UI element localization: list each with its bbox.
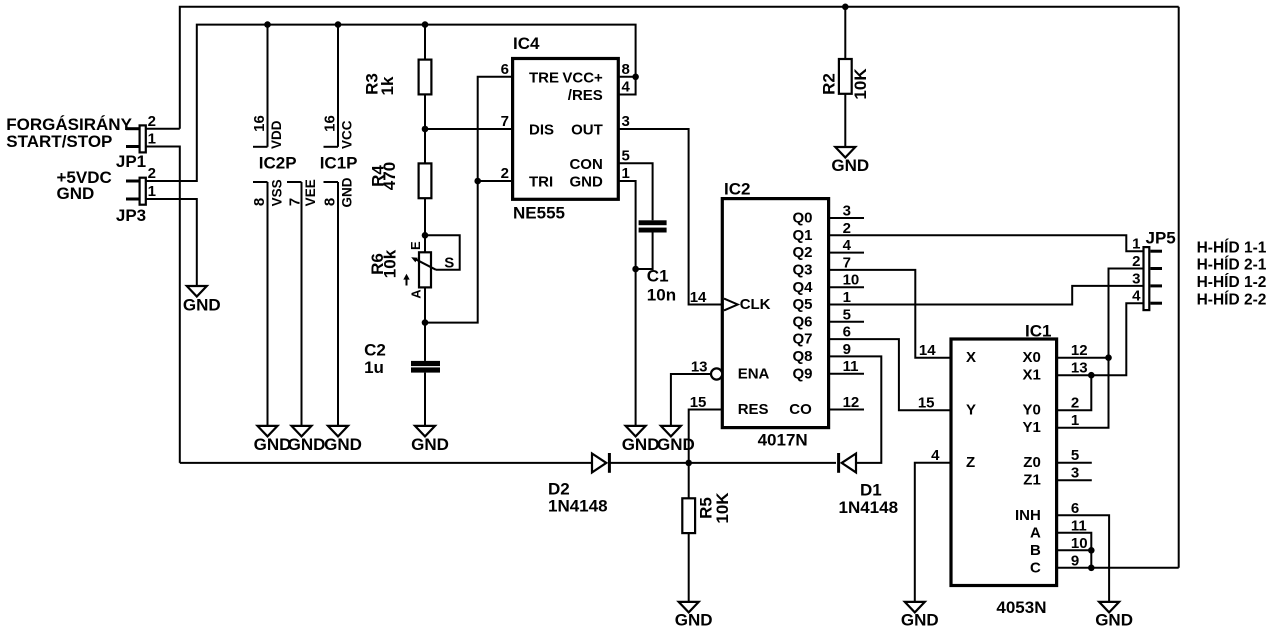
svg-text:GND: GND [831, 156, 869, 175]
svg-text:10: 10 [1071, 535, 1088, 552]
svg-text:/RES: /RES [568, 87, 603, 104]
IC2 pin 3 Q0 stub [792, 203, 864, 227]
wire ENA to ground [671, 374, 711, 426]
junction VDD rail [264, 21, 271, 28]
connector JP5 [1132, 228, 1176, 310]
wire bottom bus D2 anode [180, 462, 592, 464]
junction C [1088, 565, 1095, 572]
svg-text:GND: GND [57, 184, 95, 203]
svg-text:7: 7 [286, 198, 303, 206]
IC2 pin 15 RES [689, 394, 769, 463]
svg-text:4: 4 [622, 79, 631, 96]
svg-text:3: 3 [1071, 465, 1079, 482]
IC1 pin 15 Y [918, 395, 976, 419]
junction X0 [1105, 354, 1112, 361]
svg-text:1N4148: 1N4148 [839, 498, 899, 517]
counter IC2 4017N box [722, 179, 828, 449]
svg-text:13: 13 [1071, 360, 1088, 377]
svg-text:ENA: ENA [738, 366, 770, 383]
junction R6 top E [422, 232, 429, 239]
svg-text:RES: RES [738, 401, 769, 418]
svg-text:Q0: Q0 [792, 210, 812, 227]
IC2 pin 5 Q6 stub [792, 306, 864, 330]
IC4 pin 6 TRE [501, 61, 559, 87]
resistor R3 1k [363, 25, 432, 164]
svg-text:GND: GND [339, 177, 354, 207]
svg-text:10K: 10K [713, 492, 732, 524]
multiplexer IC1 4053N box [951, 321, 1057, 617]
svg-text:9: 9 [843, 341, 851, 358]
svg-text:6: 6 [1071, 500, 1079, 517]
svg-text:2: 2 [501, 165, 509, 182]
junction VCC rail [335, 21, 342, 28]
junction X1 [1088, 372, 1095, 379]
svg-text:D1: D1 [860, 481, 882, 500]
svg-text:6: 6 [843, 324, 851, 341]
svg-text:GND: GND [622, 435, 660, 454]
svg-text:IC2: IC2 [724, 179, 750, 198]
svg-text:10K: 10K [851, 68, 870, 100]
wire TRI stub [478, 180, 513, 182]
svg-text:15: 15 [918, 395, 935, 412]
svg-text:VEE: VEE [303, 179, 318, 206]
wire top rail from JP1 pin2 to right border [180, 7, 1179, 129]
svg-text:Q7: Q7 [792, 331, 812, 348]
IC1 pin 11 A wire [1030, 517, 1091, 568]
junction R3 top [422, 21, 429, 28]
resistor R2 10K [820, 7, 870, 147]
ground Z [901, 602, 939, 630]
svg-text:Q6: Q6 [792, 313, 812, 330]
IC1 pin 3 Z1 stub [1023, 465, 1092, 489]
svg-text:C2: C2 [364, 341, 386, 360]
svg-text:A: A [1030, 524, 1041, 541]
svg-text:3: 3 [622, 113, 630, 130]
svg-text:5: 5 [622, 147, 630, 164]
svg-text:1: 1 [148, 183, 156, 200]
junction R2 rail [842, 4, 849, 11]
svg-text:4017N: 4017N [758, 431, 808, 450]
svg-text:Y: Y [966, 402, 976, 419]
svg-text:4: 4 [843, 237, 852, 254]
IC1 pin 13 X1 wire to JP5 pin4 [1022, 303, 1143, 410]
svg-text:Q9: Q9 [792, 365, 812, 382]
svg-text:B: B [1030, 542, 1041, 559]
svg-text:2: 2 [843, 220, 851, 237]
diode D1 1N4148 [839, 453, 899, 517]
ground R2 [831, 147, 869, 175]
svg-text:Z: Z [966, 454, 975, 471]
ground ENA [657, 426, 695, 454]
junction bus-R5 [685, 460, 692, 467]
wire right border down to IC1 pin C row [1178, 7, 1180, 568]
svg-text:IC4: IC4 [513, 34, 540, 53]
junction R3-R4-DIS [422, 126, 429, 133]
svg-text:12: 12 [1071, 342, 1088, 359]
svg-text:GND: GND [254, 435, 292, 454]
svg-text:C: C [1030, 559, 1041, 576]
svg-text:GND: GND [569, 174, 603, 191]
svg-text:1: 1 [843, 289, 851, 306]
ground INH [1095, 602, 1133, 630]
svg-text:9: 9 [1071, 552, 1079, 569]
svg-text:2: 2 [1132, 253, 1140, 270]
IC1 pin 2 Y0 [1022, 395, 1079, 419]
svg-text:Q3: Q3 [792, 262, 812, 279]
wire DIS to IC4 [425, 128, 513, 130]
IC2 pin 11 Q9 stub [792, 358, 864, 382]
svg-text:10n: 10n [647, 286, 676, 305]
svg-text:14: 14 [690, 289, 707, 306]
svg-text:13: 13 [691, 359, 708, 376]
wire JP3 pin1 to ground [146, 199, 197, 286]
svg-text:1: 1 [1071, 412, 1079, 429]
svg-text:14: 14 [919, 342, 936, 359]
svg-text:Q5: Q5 [792, 296, 812, 313]
svg-text:JP1: JP1 [116, 152, 146, 171]
svg-text:1: 1 [1132, 236, 1140, 253]
IC2 pin 10 Q4 stub [792, 272, 864, 296]
IC2 pin 7 Q3 wire to IC1 X [792, 254, 951, 357]
svg-text:1: 1 [622, 165, 630, 182]
svg-text:8: 8 [622, 61, 630, 78]
svg-text:GND: GND [288, 435, 326, 454]
svg-text:GND: GND [675, 611, 713, 630]
svg-text:INH: INH [1015, 507, 1041, 524]
IC2 pin 12 CO stub [789, 394, 864, 418]
svg-text:7: 7 [843, 254, 851, 271]
svg-text:7: 7 [501, 113, 509, 130]
resistor R5 10K [682, 463, 732, 602]
svg-text:DIS: DIS [529, 122, 554, 139]
svg-text:Q2: Q2 [792, 244, 812, 261]
svg-text:11: 11 [843, 358, 859, 375]
svg-text:VSS: VSS [270, 179, 285, 206]
IC1 pin 6 INH wire to ground [1015, 500, 1109, 602]
svg-text:X1: X1 [1022, 367, 1040, 384]
svg-text:CO: CO [789, 401, 812, 418]
svg-text:H-HÍD 1-2: H-HÍD 1-2 [1197, 274, 1267, 291]
svg-text:4: 4 [931, 447, 940, 464]
svg-text:15: 15 [690, 394, 707, 411]
connector JP3 [116, 165, 156, 225]
svg-text:10: 10 [843, 272, 860, 289]
wire D2 to R5 node [609, 462, 688, 464]
ground R5 [675, 602, 713, 630]
svg-text:GND: GND [901, 611, 939, 630]
IC1 pin 5 Z0 stub [1023, 447, 1092, 471]
svg-text:1: 1 [148, 131, 156, 148]
svg-text:GND: GND [183, 295, 221, 314]
svg-text:Q8: Q8 [792, 348, 812, 365]
ground NE555 pin1 [622, 426, 660, 454]
wire R5 node to D1 [689, 462, 836, 464]
junction R6 bottom A [422, 319, 429, 326]
capacitor C2 1u [364, 341, 440, 426]
svg-text:H-HÍD 2-1: H-HÍD 2-1 [1197, 257, 1267, 274]
IC1 pin 4 Z wire to ground [915, 447, 975, 602]
IC4 pin 1 GND wire [569, 165, 635, 426]
wire +5V rail from JP3 pin2 to NE555 pin8 [146, 25, 636, 181]
ground IC2P VSS [254, 426, 292, 454]
IC4 pin 4 /RES [568, 77, 636, 104]
svg-text:8: 8 [321, 198, 338, 206]
svg-text:VCC+: VCC+ [562, 69, 603, 86]
svg-text:1N4148: 1N4148 [548, 497, 608, 516]
IC1 pin 1 Y1 [1022, 412, 1079, 436]
svg-text:GND: GND [1095, 611, 1133, 630]
IC2 pin 2 Q1 wire to JP5 pin1 [792, 220, 1143, 251]
svg-text:GND: GND [411, 435, 449, 454]
svg-text:4: 4 [1132, 288, 1141, 305]
svg-text:CLK: CLK [740, 296, 771, 313]
power symbol IC2P VDD pin 16 [251, 25, 284, 149]
ground IC1P GND [324, 426, 362, 454]
svg-text:11: 11 [1071, 517, 1087, 534]
svg-text:Z1: Z1 [1023, 472, 1041, 489]
IC1 pin 9 C wire to right border [1030, 552, 1179, 576]
IC4 pin 8 VCC+ [562, 61, 635, 87]
svg-text:R2: R2 [820, 73, 839, 95]
power symbol IC1P VCC pin 16 [321, 25, 354, 149]
IC2 pin 14 CLK [690, 289, 771, 313]
svg-text:Y1: Y1 [1022, 419, 1040, 436]
IC2 pin 4 Q2 stub [792, 237, 864, 261]
svg-text:X: X [966, 349, 976, 366]
svg-text:GND: GND [324, 435, 362, 454]
IC2 pin 13 ENA [691, 359, 770, 383]
IC4 pin 7 DIS [501, 113, 554, 139]
svg-text:5: 5 [843, 306, 851, 323]
connector JP1 [116, 113, 156, 171]
IC1 pin 14 X [919, 342, 976, 366]
svg-text:3: 3 [1132, 270, 1140, 287]
svg-text:NE555: NE555 [513, 203, 565, 222]
svg-text:OUT: OUT [571, 122, 603, 139]
svg-text:TRE: TRE [529, 69, 559, 86]
svg-text:16: 16 [321, 115, 338, 132]
resistor R4 470 [369, 162, 432, 252]
svg-text:1k: 1k [378, 76, 397, 95]
wire pot node to TRE TRI [425, 77, 513, 323]
svg-text:10k: 10k [381, 249, 400, 278]
svg-text:12: 12 [843, 394, 860, 411]
junction TRE-TRI [474, 178, 481, 185]
svg-text:2: 2 [148, 165, 156, 182]
IC2 pin 1 Q5 wire to JP5 pin3 [792, 286, 1143, 313]
svg-text:TRI: TRI [529, 174, 553, 191]
svg-text:1u: 1u [364, 358, 384, 377]
svg-text:16: 16 [251, 115, 268, 132]
svg-text:Y0: Y0 [1022, 402, 1040, 419]
svg-text:S: S [444, 254, 454, 271]
power symbol IC1P GND pin 8 [321, 177, 354, 426]
svg-text:H-HÍD 2-2: H-HÍD 2-2 [1197, 292, 1267, 309]
wire JP1 pin2 stub [146, 128, 180, 130]
svg-text:A: A [409, 289, 424, 299]
wire JP1 pin1 to bottom bus [146, 147, 180, 463]
svg-text:C1: C1 [647, 267, 669, 286]
junction pin8-pin4 [632, 74, 639, 81]
capacitor C1 10n [636, 220, 676, 304]
svg-text:2: 2 [1071, 395, 1079, 412]
IC1 pin 12 X0 wire to JP5 pin2 [1022, 269, 1143, 428]
IC2 pin 6 Q7 wire to IC1 Y [792, 324, 951, 411]
svg-text:JP3: JP3 [116, 206, 146, 225]
IC4 pin 3 OUT wire to IC2 CLK [571, 113, 722, 305]
potentiometer R6 10k [368, 235, 460, 361]
svg-text:4053N: 4053N [996, 598, 1046, 617]
svg-text:VDD: VDD [269, 120, 284, 149]
svg-text:Z0: Z0 [1023, 454, 1041, 471]
svg-text:3: 3 [843, 203, 851, 220]
svg-text:VCC: VCC [339, 120, 354, 149]
power symbol IC2P VSS pin 8 [251, 179, 285, 426]
IC2 pin 9 Q8 wire to D1 [792, 341, 881, 463]
svg-text:2: 2 [148, 113, 156, 130]
svg-text:CON: CON [569, 156, 602, 173]
power symbol IC2P VEE pin 7 [286, 179, 318, 426]
ground C2 [411, 426, 449, 454]
ground JP3 [183, 286, 221, 314]
svg-text:Q4: Q4 [792, 279, 813, 296]
IC1 pin 10 B stub [1030, 535, 1091, 559]
svg-text:IC1P: IC1P [320, 154, 358, 173]
svg-text:6: 6 [501, 61, 509, 78]
ground IC2P VEE [288, 426, 326, 454]
svg-text:5: 5 [1071, 447, 1079, 464]
IC4 pin 2 TRI [501, 165, 554, 191]
diode D2 1N4148 [548, 453, 609, 516]
svg-text:Q1: Q1 [792, 227, 812, 244]
svg-text:JP5: JP5 [1146, 228, 1176, 247]
svg-text:E: E [408, 241, 423, 250]
svg-text:H-HÍD 1-1: H-HÍD 1-1 [1197, 239, 1267, 256]
svg-text:470: 470 [380, 162, 399, 190]
svg-text:X0: X0 [1022, 349, 1040, 366]
svg-text:IC1: IC1 [1025, 321, 1051, 340]
junction B [1088, 547, 1095, 554]
junction C1-GND line [632, 266, 639, 273]
IC4 pin 5 CON wire to C1 [569, 147, 652, 220]
svg-text:IC2P: IC2P [259, 154, 297, 173]
svg-text:8: 8 [251, 198, 268, 206]
op-amp/timer IC4 NE555 box [513, 34, 619, 222]
svg-text:START/STOP: START/STOP [6, 132, 112, 151]
